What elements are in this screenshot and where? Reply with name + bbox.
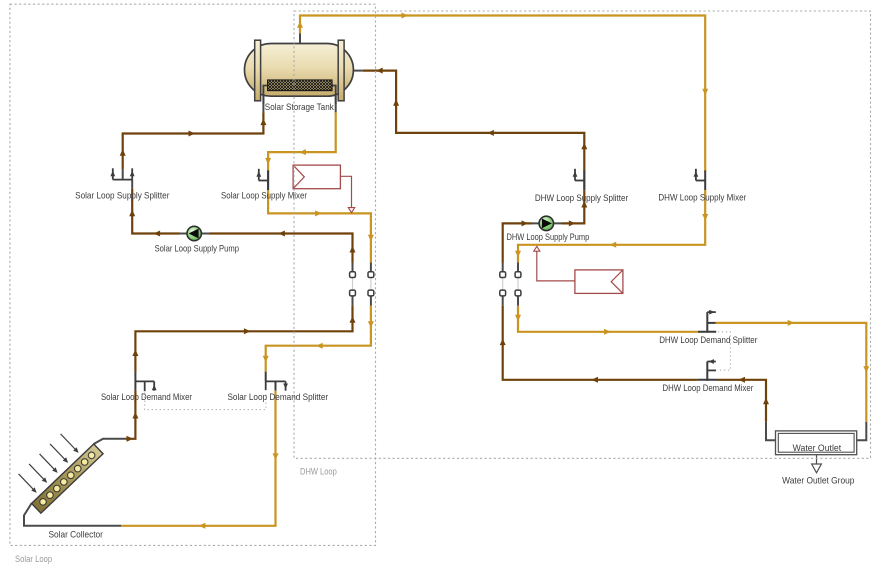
wire arrow [315, 210, 322, 216]
wire arrow [515, 251, 521, 258]
wire solar mixer to ports (orange) [268, 190, 371, 263]
wire arrow [515, 315, 521, 322]
svg-text:Solar Loop Supply Splitter: Solar Loop Supply Splitter [75, 190, 169, 200]
wire port stub gray upper [517, 263, 519, 272]
svg-text:DHW Loop Supply Pump: DHW Loop Supply Pump [507, 232, 590, 242]
wire arrow [350, 246, 356, 253]
wire collector bottom stub (gray) [24, 503, 121, 525]
mixer Solar Loop Supply Mixer [256, 169, 268, 190]
wire ports up to DHW pump line (brown) [503, 223, 532, 262]
wire arrow [299, 149, 306, 155]
port link line [352, 278, 354, 290]
wire solar splitter input stub (gray) [122, 170, 124, 180]
wire arrow [350, 316, 356, 323]
Solar Loop region dashed boundary [10, 4, 376, 545]
wire arrow [500, 339, 506, 346]
wire arrow [127, 436, 134, 442]
wire arrow [376, 68, 383, 74]
wire demand splitter to collector (orange) [121, 391, 276, 526]
wire arrow [863, 366, 869, 373]
svg-text:DHW Loop: DHW Loop [300, 467, 337, 477]
wire arrow [368, 235, 374, 242]
wire arrow [265, 158, 271, 165]
mixer DHW Loop Supply Mixer [694, 169, 706, 190]
dotted link solar demand mixer to solar demand splitter [145, 392, 266, 410]
wire DHW demand splitter to water outlet (orange) [716, 323, 867, 422]
splitter DHW Loop Demand Splitter [707, 310, 716, 333]
wire tank to solar supply mixer (orange) [268, 112, 336, 171]
wire arrow [788, 320, 795, 326]
wire port stub gray lower [370, 296, 372, 306]
splitter Solar Loop Supply Splitter [110, 168, 134, 179]
wire arrow [132, 349, 138, 356]
port square upper [368, 272, 374, 278]
port square lower [368, 290, 374, 296]
wire port stub gray upper [502, 263, 504, 272]
wire arrow [154, 231, 161, 237]
wire solar demand mixer stub (gray) [134, 372, 136, 382]
wire arrow [199, 523, 206, 529]
wire arrow [738, 377, 745, 383]
wire solar pump stubs (gray) [180, 233, 210, 235]
controller (DHW loop tempering control) [534, 246, 623, 293]
wire demand splitter input stub (gray) [698, 331, 716, 333]
port square upper [515, 272, 521, 278]
splitter DHW Loop Supply Splitter [573, 169, 585, 190]
svg-text:DHW Loop Demand Mixer: DHW Loop Demand Mixer [662, 383, 753, 393]
wire DHW demand mixer to ports (brown) [503, 306, 698, 380]
controller (solar loop tempering control) [293, 165, 355, 213]
svg-text:DHW Loop Supply Mixer: DHW Loop Supply Mixer [658, 193, 746, 203]
wire tank to solar supply splitter (brown) [123, 112, 264, 169]
wire arrow [604, 329, 611, 335]
solar collector [11, 422, 103, 513]
port square lower [500, 290, 506, 296]
svg-text:Solar Loop: Solar Loop [15, 554, 52, 564]
wire arrow [278, 231, 285, 237]
wire arrow [581, 143, 587, 150]
solar storage tank [245, 40, 354, 104]
wire arrow [522, 220, 529, 226]
wire DHW supply mixer down to corner (orange) [518, 190, 705, 263]
DHW Loop region dashed boundary [294, 11, 871, 458]
wire tank bottom-right stub (gray) [335, 96, 337, 112]
wire DHW supply splitter stub (gray) [583, 172, 585, 190]
wire solar pump to ports (brown) [210, 234, 353, 263]
wire DHW pump to supply splitter (brown) [562, 190, 585, 223]
wire arrow [244, 328, 251, 334]
svg-text:Water Outlet: Water Outlet [793, 443, 842, 453]
port link line [517, 278, 519, 290]
wire solar mixer stub (gray) [267, 170, 269, 190]
svg-text:Water Outlet Group: Water Outlet Group [782, 476, 854, 486]
wire port stub gray upper [370, 263, 372, 272]
svg-text:Solar Storage Tank: Solar Storage Tank [265, 102, 334, 112]
wire arrow [297, 21, 303, 28]
wire arrow [129, 210, 135, 217]
wire demand splitter output stub (gray) [707, 322, 716, 324]
wire DHW supply splitter to tank right (brown) [363, 71, 585, 172]
wire tank bottom-left stub (gray) [262, 96, 264, 112]
port link line [502, 278, 504, 290]
svg-text:DHW Loop Supply Splitter: DHW Loop Supply Splitter [535, 193, 628, 203]
svg-text:Solar Collector: Solar Collector [48, 530, 103, 540]
wire arrow [189, 131, 196, 137]
wire ports to solar demand mixer (brown) [135, 306, 352, 372]
wire water outlet left stub (gray) [766, 422, 776, 441]
wire tank top to DHW supply mixer (orange) [300, 16, 705, 172]
wire port stub gray lower [502, 296, 504, 306]
wire arrow [393, 99, 399, 106]
wire arrow [763, 398, 769, 405]
wire solar demand splitter stub (gray) [265, 372, 267, 382]
wire arrow [569, 220, 576, 226]
port square lower [350, 290, 356, 296]
svg-text:Solar Loop Demand Splitter: Solar Loop Demand Splitter [227, 392, 328, 402]
wire water outlet right stub (gray) [857, 422, 867, 440]
wire arrow [581, 201, 587, 208]
port square upper [500, 272, 506, 278]
svg-text:Solar Loop Supply Pump: Solar Loop Supply Pump [155, 244, 239, 254]
wire arrow [368, 321, 374, 328]
wire DHW pump stubs (gray) [532, 222, 562, 224]
wire DHW demand mixer pipe (gray) [698, 379, 717, 381]
wire arrow [120, 149, 126, 156]
wire solar splitter to pump (brown) [132, 189, 179, 234]
wire ports to DHW demand splitter (orange) [518, 306, 698, 332]
wire solar splitter output stub (gray) [131, 180, 133, 189]
wire solar demand mixer bottom stub (gray) [134, 381, 136, 390]
wire port stub gray lower [352, 296, 354, 306]
wire ports to solar demand splitter (orange) [266, 306, 371, 372]
wire port stub gray lower [517, 296, 519, 306]
wire arrow [401, 13, 408, 19]
wire arrow [132, 412, 138, 419]
dotted link DHW demand splitter to DHW demand mixer [717, 332, 730, 370]
wire arrow [487, 130, 494, 136]
wire arrow [273, 453, 279, 460]
pump Solar Loop Supply Pump [187, 226, 201, 240]
port square upper [350, 272, 356, 278]
pump DHW Loop Supply Pump [539, 216, 553, 230]
wire collector top stub (gray) [94, 439, 126, 444]
wire arrow [702, 89, 708, 96]
wire port stub gray upper [352, 263, 354, 272]
wire arrow [591, 377, 598, 383]
wire water outlet to DHW demand mixer (brown) [717, 380, 766, 422]
svg-text:Solar Loop Demand Mixer: Solar Loop Demand Mixer [101, 392, 192, 402]
wire tank right stub (gray) [353, 70, 363, 72]
svg-text:DHW Loop Demand Splitter: DHW Loop Demand Splitter [659, 335, 757, 345]
mixer Solar Loop Demand Mixer [135, 381, 156, 391]
wire solar demand splitter output stub (gray) [275, 381, 277, 390]
water outlet group block [776, 431, 857, 473]
wire arrow [316, 343, 323, 349]
wire collector to solar demand mixer (brown) [126, 390, 135, 438]
splitter Solar Loop Demand Splitter [266, 381, 288, 390]
port link line [370, 278, 372, 290]
wire arrow [610, 242, 617, 248]
port square lower [515, 290, 521, 296]
mixer DHW Loop Demand Mixer [707, 359, 716, 381]
wire arrow [702, 214, 708, 221]
wire arrow [260, 119, 266, 126]
wire arrow [263, 356, 269, 363]
wire tank top riser stub (gray) [299, 34, 301, 45]
